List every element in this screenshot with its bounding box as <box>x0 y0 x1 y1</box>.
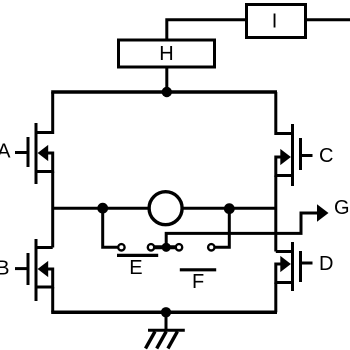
D arrow <box>280 256 291 272</box>
top rail <box>51 90 277 94</box>
transistor C <box>276 124 334 186</box>
arrowhead G <box>317 204 329 221</box>
wire C source to D drain <box>274 176 277 252</box>
transistor B <box>0 239 53 301</box>
E contact 2 <box>148 244 154 250</box>
wire switch F to node <box>215 209 229 247</box>
svg-text:G: G <box>334 197 350 219</box>
middle rail left <box>53 207 150 210</box>
F contact 2 <box>208 244 214 250</box>
switch F <box>176 244 216 293</box>
D gate bar <box>299 251 302 282</box>
junction dot bottom <box>161 307 171 317</box>
transistor D <box>276 242 334 291</box>
middle rail right <box>182 207 276 210</box>
block H <box>119 40 215 67</box>
D channel bar <box>291 242 294 291</box>
D drain stub <box>276 250 293 253</box>
B source/body lead <box>36 269 53 287</box>
A arrow <box>38 145 49 161</box>
C gate lead <box>302 154 313 157</box>
B channel bar <box>35 239 38 301</box>
svg-text:E: E <box>129 257 142 279</box>
junction dot switch common <box>162 243 171 252</box>
F contact 1 <box>176 244 182 250</box>
bottom rail <box>51 311 277 315</box>
A gate lead <box>15 151 27 154</box>
wire rail to C drain <box>276 92 293 134</box>
wire I right to edge <box>306 18 350 21</box>
block I <box>247 5 306 38</box>
wire D source to bottom rail <box>274 283 277 313</box>
C arrow <box>280 149 291 165</box>
svg-text:F: F <box>192 271 204 293</box>
D gate lead <box>302 262 313 265</box>
svg-text:I: I <box>272 10 278 32</box>
transistor A <box>0 123 53 184</box>
switch E <box>117 244 158 279</box>
ground <box>146 312 185 348</box>
wire common to G output <box>166 213 317 247</box>
wire E-F common link <box>155 245 176 249</box>
svg-text:H: H <box>159 43 173 65</box>
wire rail to A drain <box>36 92 53 133</box>
svg-text:B: B <box>0 257 9 279</box>
C channel bar <box>291 124 294 186</box>
B gate lead <box>15 267 27 270</box>
C gate bar <box>299 138 302 170</box>
motor M <box>149 192 182 225</box>
junction dot node F tap <box>224 203 235 214</box>
E actuator bar <box>117 254 158 257</box>
wire A source to B drain <box>51 172 54 248</box>
wire B source to bottom rail <box>51 287 54 312</box>
svg-text:A: A <box>0 140 11 162</box>
A gate bar <box>27 137 30 167</box>
E contact 1 <box>118 244 124 250</box>
A channel bar <box>35 123 38 184</box>
B drain stub <box>36 246 53 249</box>
svg-text:D: D <box>319 253 333 275</box>
junction dot node E tap <box>97 203 108 214</box>
wire I to H <box>167 20 245 39</box>
B arrow <box>38 261 49 277</box>
F actuator bar <box>180 268 216 271</box>
D source/body lead <box>276 264 293 283</box>
A source/body lead <box>36 153 53 172</box>
junction dot top <box>162 87 172 97</box>
wire H bottom <box>165 67 168 92</box>
svg-text:C: C <box>319 145 333 167</box>
wire node to switch E <box>103 208 118 247</box>
B gate bar <box>27 253 30 285</box>
C source/body lead <box>276 157 293 176</box>
